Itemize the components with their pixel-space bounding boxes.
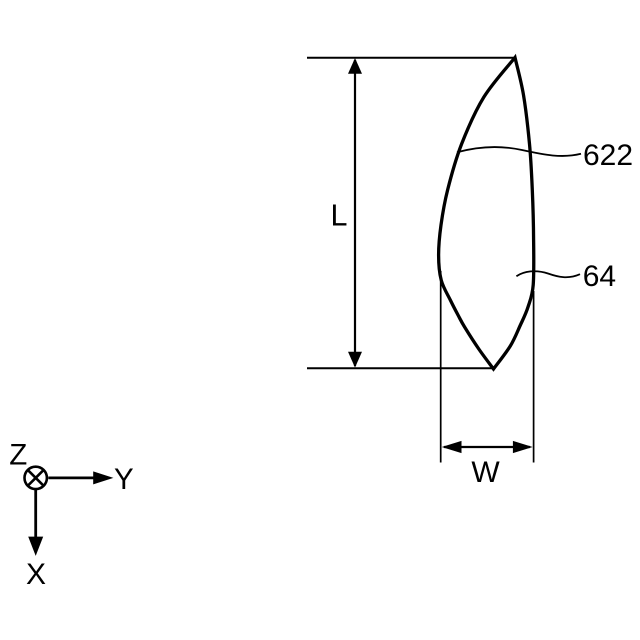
- X axis line: [34, 490, 37, 539]
- bottom extension line: [307, 367, 492, 369]
- svg-text:Z: Z: [9, 439, 27, 472]
- dimension line W: [444, 446, 530, 448]
- Z axis symbol: circle with cross (into page): [25, 467, 47, 489]
- svg-text:622: 622: [583, 139, 633, 172]
- arrowhead L bottom: [348, 352, 362, 368]
- svg-text:W: W: [471, 456, 500, 489]
- leader line to label 64: [516, 271, 580, 277]
- arrowhead L top: [348, 58, 362, 74]
- arrowhead W left: [442, 441, 462, 453]
- coordinate axes: [9, 439, 134, 591]
- X axis arrowhead: [28, 537, 43, 556]
- dimension line L: [354, 60, 356, 366]
- svg-text:Y: Y: [114, 463, 134, 496]
- Y axis arrowhead: [93, 471, 113, 484]
- leader line to label 622: [457, 147, 581, 156]
- svg-text:L: L: [331, 199, 348, 233]
- Y axis line: [48, 476, 96, 479]
- W extension line left: [440, 271, 442, 463]
- lens body outline (element 64): [439, 58, 534, 370]
- svg-text:64: 64: [583, 260, 616, 293]
- top extension line: [307, 57, 514, 59]
- W extension line right: [533, 291, 535, 463]
- svg-text:X: X: [26, 558, 46, 591]
- arrowhead W right: [513, 441, 533, 453]
